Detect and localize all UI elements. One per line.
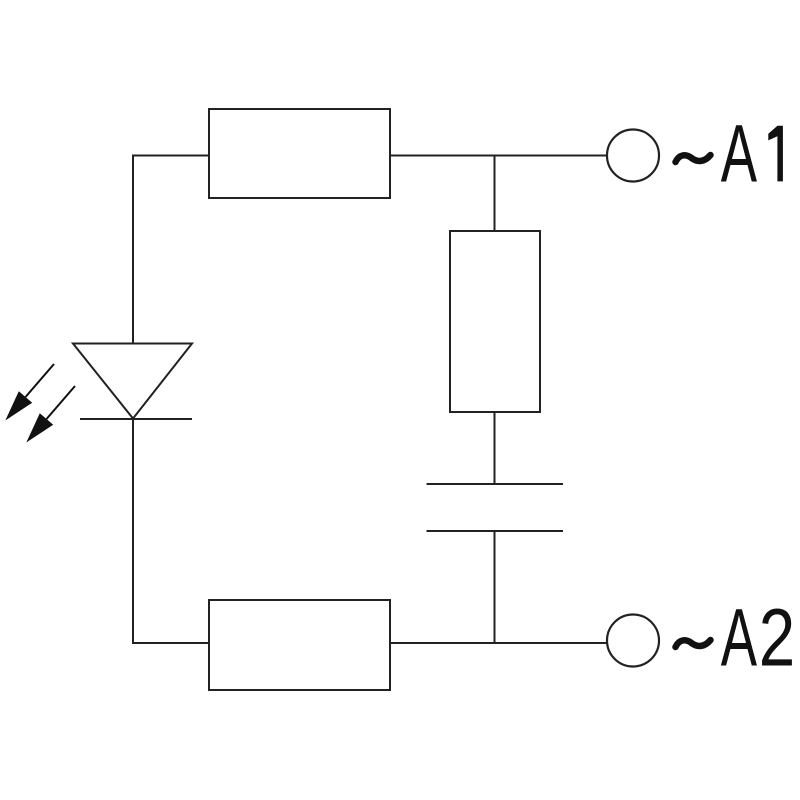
LED D1 cathode bar — [80, 418, 192, 420]
wire capacitor C1 to bottom net — [494, 531, 496, 644]
svg-text:2: 2 — [759, 592, 795, 683]
terminal A2 circle — [607, 615, 659, 667]
svg-text:A: A — [721, 591, 758, 683]
resistor R1 — [209, 109, 390, 198]
svg-text:A: A — [721, 108, 758, 200]
terminal A1 circle — [607, 130, 659, 182]
LED D1 triangle (anode) — [73, 344, 192, 419]
wire top-left horizontal — [133, 155, 209, 157]
resistor R3 — [209, 600, 390, 690]
wire R2 bottom to capacitor C1 — [494, 412, 496, 484]
wire top-right horizontal to terminal A1 — [390, 155, 607, 157]
wire LED cathode down — [132, 419, 134, 644]
LED D1 emission arrow 2 — [26, 386, 75, 443]
label A1 digit 1 — [768, 126, 783, 182]
capacitor C1 bottom plate — [427, 530, 564, 532]
resistor R2 — [450, 231, 540, 412]
wire node junction down to R2 — [494, 156, 496, 232]
capacitor C1 top plate — [427, 483, 564, 485]
LED D1 emission arrow 1 — [5, 364, 54, 421]
wire left vertical (anode branch) — [132, 155, 134, 345]
wire bottom-left horizontal — [133, 642, 209, 644]
AC tilde for A2 — [676, 640, 711, 647]
wire bottom-right horizontal to terminal A2 — [390, 642, 607, 644]
AC tilde for A1 — [676, 155, 711, 162]
